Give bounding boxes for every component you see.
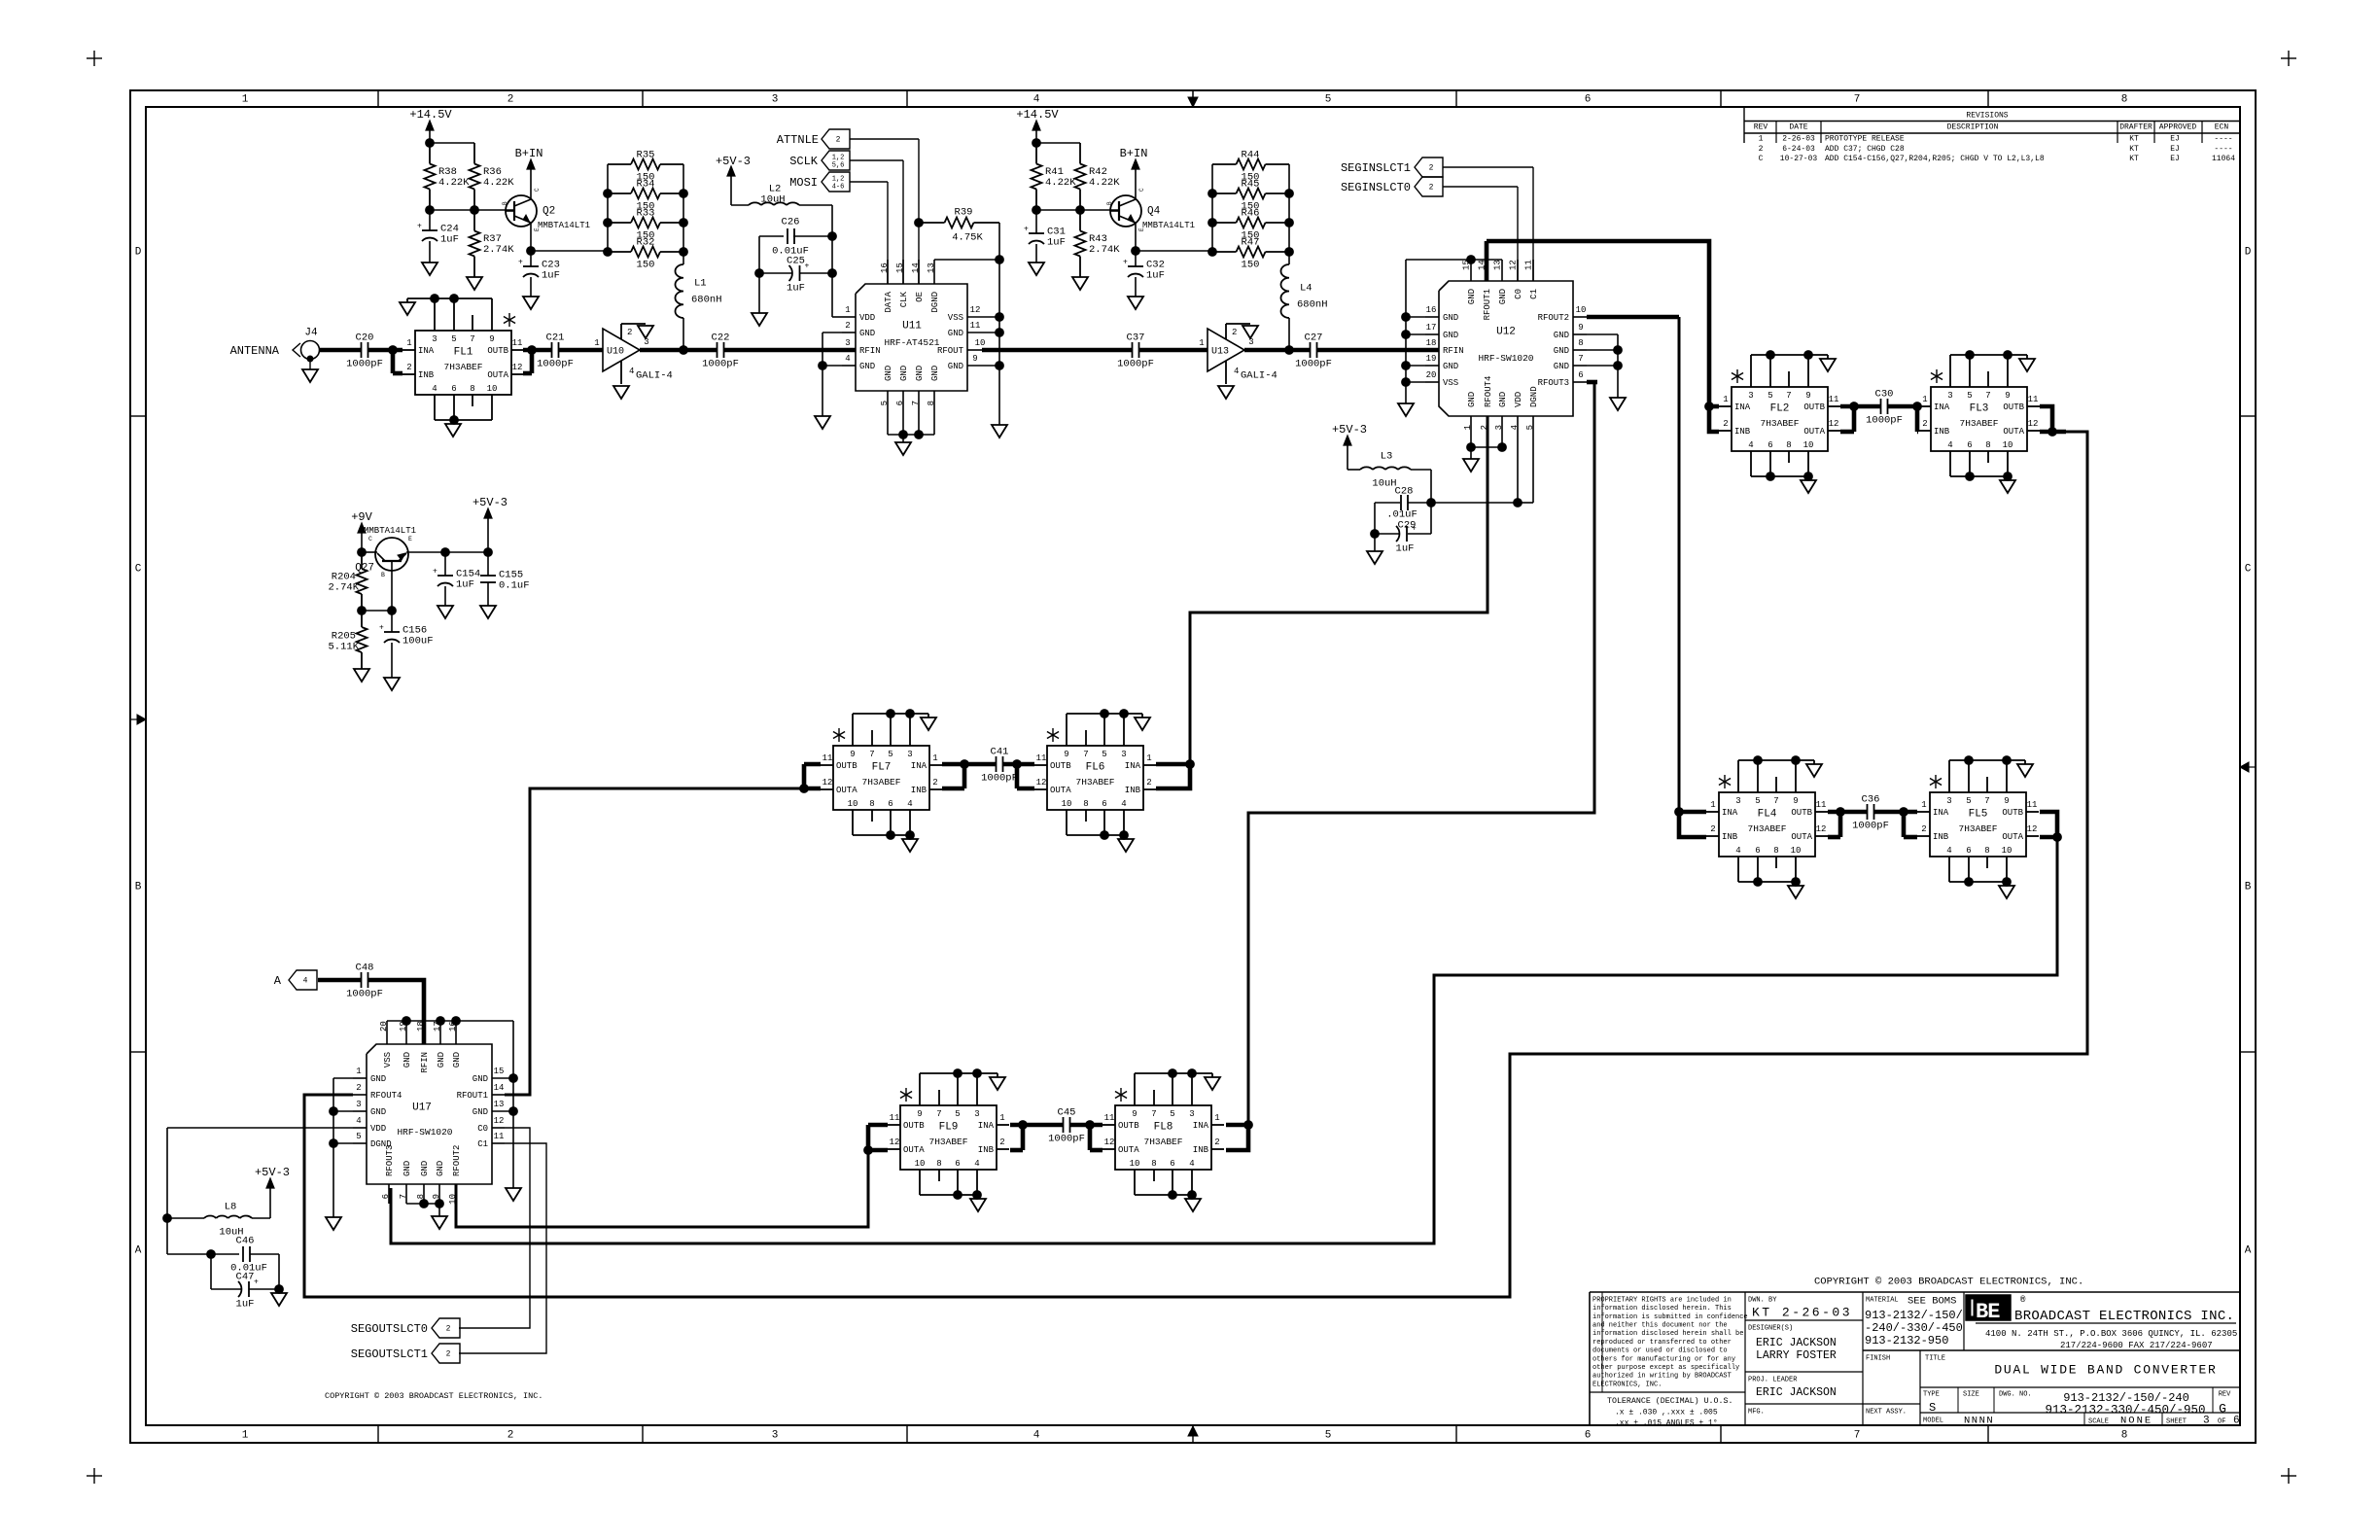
- svg-text:INB: INB: [1933, 832, 1949, 842]
- svg-text:INA: INA: [978, 1121, 995, 1131]
- svg-text:6: 6: [1767, 440, 1772, 450]
- svg-text:7H3ABEF: 7H3ABEF: [1959, 823, 1998, 834]
- svg-text:HRF-SW1020: HRF-SW1020: [397, 1127, 452, 1137]
- svg-text:2: 2: [1723, 419, 1728, 429]
- svg-text:GND: GND: [948, 329, 963, 338]
- svg-text:9: 9: [489, 334, 494, 344]
- svg-text:information is submitted in co: information is submitted in confidence: [1592, 1313, 1748, 1321]
- svg-text:4.22K: 4.22K: [483, 177, 514, 189]
- svg-text:OUTA: OUTA: [1803, 427, 1825, 437]
- svg-text:150: 150: [637, 260, 655, 271]
- filter FL8 7H3ABEF: [1115, 1105, 1211, 1170]
- svg-text:INB: INB: [1193, 1145, 1209, 1155]
- svg-text:OUTB: OUTB: [903, 1121, 925, 1131]
- capacitor C36 1000pF: [1867, 804, 1869, 820]
- svg-text:3: 3: [2203, 1416, 2210, 1427]
- svg-text:SCLK: SCLK: [789, 155, 819, 168]
- svg-text:DWG. NO.: DWG. NO.: [1999, 1390, 2032, 1398]
- wire U13 out to C27: [1244, 348, 1310, 353]
- svg-text:COPYRIGHT © 2003 BROADCAST ELE: COPYRIGHT © 2003 BROADCAST ELECTRONICS, …: [1814, 1277, 2083, 1288]
- capacitor C25 1uF: [759, 272, 792, 274]
- svg-text:GND: GND: [420, 1161, 430, 1176]
- capacitor C31: [1035, 210, 1037, 233]
- svg-text:RFOUT4: RFOUT4: [1484, 376, 1493, 407]
- svg-text:4: 4: [1033, 94, 1040, 106]
- svg-text:4: 4: [432, 384, 437, 394]
- svg-text:2.74K: 2.74K: [483, 244, 514, 256]
- svg-text:680nH: 680nH: [691, 295, 722, 306]
- svg-text:10: 10: [848, 799, 858, 809]
- IC U12 HRF-SW1020: [1439, 281, 1573, 416]
- svg-text:5: 5: [1325, 94, 1332, 106]
- svg-text:9: 9: [1132, 1109, 1137, 1119]
- svg-text:R47: R47: [1242, 237, 1260, 249]
- svg-text:2: 2: [1922, 419, 1927, 429]
- svg-text:7: 7: [1083, 750, 1088, 759]
- svg-text:INB: INB: [1734, 427, 1751, 437]
- svg-text:GND: GND: [1554, 362, 1569, 371]
- svg-text:OUTB: OUTB: [1050, 761, 1071, 771]
- svg-text:SEGOUTSLCT1: SEGOUTSLCT1: [351, 1347, 428, 1361]
- svg-text:C0: C0: [477, 1124, 488, 1134]
- svg-text:reproduced or transferred to o: reproduced or transferred to other: [1592, 1339, 1732, 1347]
- svg-text:5: 5: [356, 1132, 361, 1141]
- svg-text:MODEL: MODEL: [1923, 1417, 1943, 1424]
- svg-text:3: 3: [1248, 337, 1253, 347]
- svg-text:10: 10: [2002, 846, 2012, 856]
- svg-text:11: 11: [1829, 395, 1839, 404]
- ground C47: [271, 1293, 287, 1306]
- resistor R39 4.75K: [915, 219, 924, 227]
- svg-text:2: 2: [356, 1083, 361, 1093]
- ground U11 right: [992, 425, 1007, 437]
- wire Q2 base: [426, 206, 435, 215]
- svg-text:VSS: VSS: [948, 313, 963, 323]
- svg-text:4: 4: [845, 354, 850, 364]
- svg-text:12: 12: [1036, 778, 1047, 787]
- wire U11 DGND rail: [933, 259, 935, 261]
- svg-text:OUTA: OUTA: [836, 786, 857, 795]
- svg-text:4: 4: [1189, 1159, 1194, 1169]
- svg-text:+: +: [1123, 259, 1128, 267]
- svg-text:7: 7: [869, 750, 874, 759]
- svg-text:FL7: FL7: [872, 762, 892, 774]
- svg-text:10: 10: [1062, 799, 1072, 809]
- wire C20 to FL1: [368, 348, 402, 353]
- svg-text:GND: GND: [1443, 313, 1458, 323]
- svg-text:4: 4: [907, 799, 912, 809]
- svg-text:14: 14: [911, 262, 921, 273]
- IC U17 HRF-SW1020: [367, 1044, 492, 1184]
- svg-text:7: 7: [936, 1109, 941, 1119]
- wire U10 out: [640, 348, 717, 353]
- ground U12 right: [1610, 398, 1626, 410]
- svg-text:7H3ABEF: 7H3ABEF: [1144, 1137, 1183, 1147]
- svg-text:ADD C154-C156,Q27,R204,R205; C: ADD C154-C156,Q27,R204,R205; CHGD V TO L…: [1825, 155, 2045, 163]
- wire FL2 out to C30: [1840, 404, 1880, 409]
- wire U12 RFOUT3 to FL8: [1587, 380, 1597, 385]
- svg-text:GND: GND: [1554, 346, 1569, 356]
- wire U11 RFOUT to C37: [982, 348, 1132, 353]
- svg-text:1uF: 1uF: [440, 234, 459, 246]
- svg-text:E: E: [1138, 227, 1145, 231]
- svg-text:C20: C20: [356, 332, 374, 344]
- svg-text:6: 6: [381, 1194, 391, 1199]
- svg-text:7: 7: [1854, 1430, 1861, 1442]
- op-amp U10 GALI-4: [603, 329, 640, 371]
- svg-text:OUTB: OUTB: [1118, 1121, 1139, 1131]
- svg-text:U13: U13: [1211, 346, 1229, 357]
- svg-text:GND: GND: [370, 1107, 386, 1117]
- ground U11 left: [815, 416, 830, 429]
- resistor R205 5.11K: [361, 611, 363, 627]
- svg-text:2: 2: [1232, 328, 1237, 337]
- svg-text:INB: INB: [911, 786, 927, 795]
- svg-text:6: 6: [895, 401, 905, 405]
- svg-text:SEGINSLCT0: SEGINSLCT0: [1341, 181, 1411, 194]
- svg-text:1uF: 1uF: [1047, 237, 1066, 249]
- inductor L8 10uH: [163, 1214, 172, 1223]
- capacitor C21 1000pF: [551, 342, 553, 358]
- svg-text:B+IN: B+IN: [1120, 147, 1148, 160]
- svg-text:2: 2: [627, 328, 632, 337]
- svg-text:8: 8: [1151, 1159, 1156, 1169]
- wire U17 VDD to L8 node: [167, 1127, 353, 1129]
- svg-text:NEXT ASSY.: NEXT ASSY.: [1866, 1408, 1907, 1416]
- svg-text:1,2: 1,2: [832, 175, 845, 183]
- svg-text:REV: REV: [1754, 123, 1768, 132]
- svg-text:8: 8: [1578, 338, 1583, 348]
- svg-text:1: 1: [1146, 753, 1151, 763]
- svg-text:3: 3: [1947, 391, 1952, 401]
- svg-text:11: 11: [494, 1132, 505, 1141]
- svg-text:TOLERANCE (DECIMAL) U.O.S.: TOLERANCE (DECIMAL) U.O.S.: [1607, 1396, 1732, 1406]
- wire U12 pin15 rail: [1406, 259, 1502, 261]
- svg-text:1000pF: 1000pF: [346, 359, 383, 370]
- svg-text:GND: GND: [948, 362, 963, 371]
- wire C48 to U17 RFIN: [368, 980, 424, 1044]
- svg-text:C: C: [534, 188, 541, 192]
- svg-text:GND: GND: [930, 366, 940, 381]
- svg-text:J4: J4: [304, 328, 318, 339]
- svg-text:C22: C22: [712, 332, 730, 344]
- filter FL2 7H3ABEF: [1732, 387, 1828, 451]
- capacitor C156 100uF: [391, 611, 393, 632]
- svg-text:B: B: [1106, 201, 1113, 205]
- capacitor C48 1000pF: [361, 972, 363, 988]
- svg-text:11: 11: [2027, 800, 2038, 810]
- svg-text:5: 5: [1325, 1430, 1332, 1442]
- material column: [1963, 1292, 1965, 1350]
- svg-text:6-24-03: 6-24-03: [1782, 145, 1815, 154]
- svg-text:U10: U10: [607, 346, 624, 357]
- svg-text:INA: INA: [1933, 808, 1949, 818]
- svg-text:information disclosed herein s: information disclosed herein shall be: [1592, 1330, 1743, 1338]
- svg-text:+: +: [1024, 226, 1029, 234]
- svg-text:2: 2: [932, 778, 937, 787]
- svg-text:10: 10: [1130, 1159, 1140, 1169]
- svg-text:B: B: [502, 201, 508, 205]
- svg-text:9: 9: [2005, 391, 2010, 401]
- ground C24: [422, 262, 437, 275]
- svg-text:10: 10: [2003, 440, 2013, 450]
- svg-text:10: 10: [915, 1159, 926, 1169]
- ground U17 left: [326, 1217, 341, 1230]
- svg-text:C21: C21: [546, 332, 565, 344]
- svg-text:VDD: VDD: [1514, 392, 1523, 407]
- svg-text:REV: REV: [2219, 1390, 2231, 1398]
- svg-text:12: 12: [2028, 419, 2039, 429]
- svg-text:10uH: 10uH: [760, 194, 785, 206]
- svg-text:6: 6: [1755, 846, 1760, 856]
- svg-text:+: +: [805, 262, 810, 271]
- wire U12 RFOUT2 to FL4: [1587, 315, 1679, 320]
- svg-text:R39: R39: [955, 207, 973, 219]
- svg-text:5: 5: [880, 401, 890, 405]
- svg-text:ELECTRONICS, INC.: ELECTRONICS, INC.: [1592, 1381, 1662, 1388]
- filter FL6 7H3ABEF: [1047, 746, 1143, 810]
- svg-text:C28: C28: [1395, 486, 1414, 498]
- svg-text:7: 7: [399, 1194, 408, 1199]
- svg-text:U11: U11: [902, 321, 922, 332]
- svg-text:2: 2: [446, 1350, 451, 1359]
- wire U11 bottom gnd rail: [888, 434, 934, 436]
- svg-text:4: 4: [1234, 367, 1239, 376]
- svg-text:U12: U12: [1496, 327, 1516, 338]
- svg-text:8: 8: [416, 1194, 426, 1199]
- svg-text:INA: INA: [1722, 808, 1738, 818]
- svg-text:1uF: 1uF: [1146, 270, 1165, 282]
- svg-text:10: 10: [1791, 846, 1802, 856]
- svg-text:5: 5: [1170, 1109, 1174, 1119]
- svg-text:GND: GND: [1554, 331, 1569, 340]
- svg-text:MOSI: MOSI: [789, 176, 818, 190]
- svg-text:11: 11: [970, 321, 981, 331]
- svg-text:OUTA: OUTA: [2003, 427, 2024, 437]
- svg-text:1: 1: [1723, 395, 1728, 404]
- svg-text:OE: OE: [915, 292, 925, 302]
- svg-text:4: 4: [1946, 846, 1951, 856]
- svg-text:2: 2: [1429, 164, 1434, 173]
- type size dwg rev row: [1957, 1387, 1959, 1413]
- svg-text:11: 11: [1524, 260, 1534, 270]
- svg-text:2: 2: [1921, 824, 1926, 834]
- svg-text:9: 9: [917, 1109, 922, 1119]
- capacitor C27 1000pF: [1310, 342, 1312, 358]
- svg-text:+14.5V: +14.5V: [409, 108, 452, 122]
- svg-text:COPYRIGHT © 2003 BROADCAST ELE: COPYRIGHT © 2003 BROADCAST ELECTRONICS, …: [325, 1391, 542, 1401]
- svg-text:C36: C36: [1862, 794, 1880, 806]
- wire RFOUT1 to FL2: [1485, 241, 1489, 281]
- svg-text:5: 5: [1966, 796, 1971, 806]
- svg-text:GND: GND: [899, 366, 909, 381]
- svg-text:6: 6: [888, 799, 892, 809]
- svg-text:2.74K: 2.74K: [328, 582, 359, 594]
- svg-text:3: 3: [644, 337, 648, 347]
- resistor R41: [1035, 143, 1037, 164]
- svg-text:5: 5: [1102, 750, 1106, 759]
- svg-text:4: 4: [1121, 799, 1126, 809]
- svg-text:L1: L1: [694, 278, 707, 290]
- svg-text:7: 7: [1985, 391, 1990, 401]
- svg-text:4: 4: [1033, 1430, 1040, 1442]
- svg-text:13: 13: [1493, 260, 1503, 270]
- svg-text:913-2132/-150/: 913-2132/-150/: [1865, 1309, 1963, 1322]
- svg-text:5: 5: [451, 334, 456, 344]
- svg-text:7: 7: [1786, 391, 1791, 401]
- svg-text:2.74K: 2.74K: [1089, 244, 1120, 256]
- svg-text:RFIN: RFIN: [1443, 346, 1464, 356]
- svg-text:217/224-9600 FAX 217/224-9607: 217/224-9600 FAX 217/224-9607: [2060, 1341, 2213, 1350]
- svg-text:-240/-330/-450: -240/-330/-450: [1865, 1321, 1963, 1335]
- svg-text:C25: C25: [787, 256, 805, 267]
- svg-text:DGND: DGND: [930, 292, 940, 313]
- svg-text:+5V-3: +5V-3: [716, 155, 751, 168]
- svg-text:4: 4: [974, 1159, 979, 1169]
- svg-text:8: 8: [1985, 440, 1990, 450]
- svg-text:7H3ABEF: 7H3ABEF: [1076, 777, 1115, 787]
- svg-text:3: 3: [974, 1109, 979, 1119]
- wire antenna to C20: [319, 348, 361, 353]
- svg-text:U17: U17: [412, 1102, 432, 1114]
- wire A to C48: [318, 978, 361, 983]
- svg-text:EJ: EJ: [2170, 145, 2180, 154]
- svg-text:L8: L8: [225, 1202, 237, 1213]
- IC U11 HRF-AT4521: [856, 284, 967, 391]
- svg-text:RFOUT4: RFOUT4: [370, 1091, 402, 1101]
- svg-text:Q4: Q4: [1147, 206, 1161, 218]
- capacitor C154 1uF: [441, 548, 450, 557]
- svg-text:2: 2: [1146, 778, 1151, 787]
- svg-text:FL8: FL8: [1154, 1122, 1173, 1134]
- svg-text:12: 12: [1509, 260, 1519, 270]
- svg-text:C48: C48: [356, 962, 374, 974]
- svg-text:MMBTA14LT1: MMBTA14LT1: [364, 526, 416, 536]
- svg-text:DWN. BY: DWN. BY: [1748, 1296, 1777, 1304]
- svg-text:REVISIONS: REVISIONS: [1966, 112, 2008, 121]
- svg-text:FL3: FL3: [1970, 403, 1989, 415]
- svg-text:2: 2: [999, 1137, 1004, 1147]
- capacitor C41 1000pF: [996, 756, 997, 772]
- ground U11 bottom: [895, 442, 911, 455]
- svg-text:5: 5: [1525, 425, 1535, 430]
- svg-text:1000pF: 1000pF: [981, 773, 1018, 785]
- svg-text:11: 11: [2028, 395, 2039, 404]
- svg-text:6: 6: [955, 1159, 960, 1169]
- svg-text:1uF: 1uF: [542, 270, 560, 282]
- svg-text:1: 1: [1710, 800, 1715, 810]
- svg-text:1000pF: 1000pF: [1295, 359, 1332, 370]
- svg-text:2: 2: [507, 94, 514, 106]
- wire U12 right gnd rail: [1587, 333, 1618, 335]
- svg-text:2: 2: [845, 321, 850, 331]
- svg-text:1000pF: 1000pF: [1048, 1134, 1085, 1145]
- proprietary rights box: [1744, 1292, 1746, 1425]
- svg-text:8: 8: [869, 799, 874, 809]
- svg-text:NONE: NONE: [2120, 1416, 2152, 1427]
- svg-text:9: 9: [1578, 323, 1583, 332]
- svg-text:6: 6: [1102, 799, 1106, 809]
- svg-text:+: +: [254, 1278, 259, 1287]
- svg-text:RFOUT: RFOUT: [937, 346, 964, 356]
- svg-text:RFOUT2: RFOUT2: [452, 1145, 462, 1176]
- svg-text:11: 11: [1036, 753, 1047, 763]
- svg-text:16: 16: [1426, 305, 1437, 315]
- wire C36 to FL5: [1874, 810, 1917, 815]
- wire FL5 out to U17 RFOUT3 (long route): [2040, 812, 2057, 837]
- svg-text:11: 11: [822, 753, 833, 763]
- svg-text:2: 2: [507, 1430, 514, 1442]
- svg-text:A: A: [135, 1245, 142, 1257]
- svg-text:7H3ABEF: 7H3ABEF: [1960, 418, 1999, 429]
- svg-text:authorized in writing by BROAD: authorized in writing by BROADCAST: [1592, 1373, 1732, 1381]
- resistor R42: [1079, 143, 1081, 164]
- svg-text:SIZE: SIZE: [1963, 1390, 1979, 1398]
- svg-text:B: B: [381, 572, 385, 578]
- svg-text:B: B: [2245, 882, 2252, 893]
- ground C25: [752, 313, 767, 326]
- svg-text:SEGOUTSLCT0: SEGOUTSLCT0: [351, 1322, 428, 1336]
- svg-text:INA: INA: [1125, 761, 1141, 771]
- wire U12 VDD DGND to C28 node: [1517, 431, 1519, 503]
- svg-text:GND: GND: [402, 1052, 412, 1067]
- wire U12 RFOUT4 to FL6: [1190, 416, 1487, 764]
- wire FL9 out to U17 RFOUT2: [868, 1123, 888, 1128]
- svg-text:11: 11: [1104, 1113, 1115, 1123]
- svg-text:OUTB: OUTB: [487, 346, 508, 356]
- svg-text:6: 6: [1967, 440, 1972, 450]
- svg-text:7H3ABEF: 7H3ABEF: [862, 777, 901, 787]
- svg-text:----: ----: [2214, 145, 2232, 154]
- svg-text:8: 8: [936, 1159, 941, 1169]
- svg-text:ANTENNA: ANTENNA: [230, 344, 280, 358]
- svg-text:GND: GND: [1467, 289, 1477, 304]
- svg-text:OUTB: OUTB: [1803, 402, 1825, 412]
- svg-text:10: 10: [1576, 305, 1587, 315]
- svg-text:1: 1: [999, 1113, 1004, 1123]
- svg-text:8: 8: [2121, 1430, 2128, 1442]
- svg-text:A: A: [2245, 1245, 2252, 1257]
- svg-text:6: 6: [451, 384, 456, 394]
- wire FL4 out to C36: [1828, 810, 1867, 815]
- node Q4 bias top: [1032, 139, 1041, 148]
- svg-text:C30: C30: [1875, 389, 1894, 401]
- resistor R37: [473, 210, 475, 231]
- svg-text:others for manufacturing or fo: others for manufacturing or for any: [1592, 1355, 1735, 1363]
- capacitor C45 1000pF: [1063, 1117, 1065, 1133]
- svg-text:4.22K: 4.22K: [438, 177, 470, 189]
- svg-text:INB: INB: [1722, 832, 1738, 842]
- svg-text:1: 1: [1759, 135, 1764, 144]
- svg-text:C1: C1: [477, 1139, 488, 1149]
- svg-text:ECN: ECN: [2215, 123, 2229, 132]
- svg-text:12: 12: [2027, 824, 2038, 834]
- svg-text:3: 3: [907, 750, 912, 759]
- wire C27 to U12 RFIN: [1317, 348, 1439, 353]
- svg-text:OUTB: OUTB: [836, 761, 857, 771]
- svg-text:4: 4: [1947, 440, 1952, 450]
- svg-text:DATA: DATA: [884, 291, 893, 312]
- svg-text:OF: OF: [2218, 1417, 2225, 1425]
- svg-text:7: 7: [1151, 1109, 1156, 1119]
- svg-text:FL6: FL6: [1086, 762, 1105, 774]
- svg-text:+14.5V: +14.5V: [1016, 108, 1059, 122]
- svg-text:1: 1: [845, 305, 850, 315]
- svg-text:other purpose except as specif: other purpose except as specifically: [1592, 1364, 1739, 1372]
- svg-text:1: 1: [1463, 425, 1473, 430]
- ground R43: [1072, 277, 1088, 290]
- svg-text:+: +: [379, 624, 384, 633]
